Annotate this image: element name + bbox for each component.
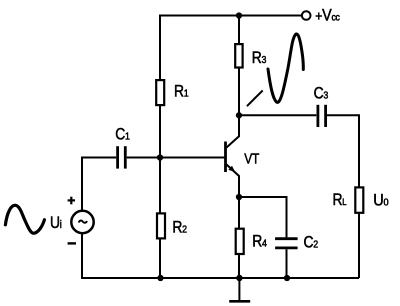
input sine wave [5, 205, 44, 233]
wire right column upper [358, 114, 360, 187]
wire left column middle [159, 105, 161, 214]
wire source bottom [81, 233, 83, 279]
node dot emitter [236, 194, 242, 200]
resistor RL [355, 187, 363, 212]
label plus [68, 197, 75, 205]
wire C3 to right column [327, 114, 359, 116]
wire bottom rail [82, 277, 359, 279]
svg-text:VT: VT [244, 150, 259, 167]
wire R4 to rail [238, 254, 240, 278]
capacitor C1 [118, 146, 126, 168]
svg-text:C2: C2 [304, 234, 318, 252]
svg-text:R1: R1 [174, 83, 188, 101]
resistor R4 [236, 229, 244, 254]
capacitor C2 [275, 239, 298, 248]
wire mid column collector [238, 67, 240, 115]
wire collector to C3 [239, 114, 316, 116]
label minus [68, 242, 76, 244]
resistor R3 [235, 44, 242, 67]
wire emitter to R4 [238, 197, 240, 229]
wire left column lower [159, 238, 161, 278]
svg-text:R2: R2 [172, 219, 186, 237]
node dot bottom C2 [284, 275, 290, 281]
terminal +Vcc circle [302, 11, 311, 20]
wire left column upper [159, 15, 161, 81]
node dot bottom left [157, 275, 163, 281]
svg-text:RL: RL [333, 191, 347, 209]
source Ui circle [71, 211, 93, 233]
output sine wave [268, 34, 303, 102]
svg-text:R4: R4 [252, 233, 267, 251]
resistor R2 [157, 213, 165, 238]
wire C2 stem bottom [286, 249, 288, 278]
wire C2 stem top [286, 196, 288, 237]
node dot top rail [236, 12, 242, 18]
wire mid column top [238, 16, 240, 45]
svg-text:R3: R3 [252, 49, 266, 67]
node dot base [157, 154, 163, 160]
svg-text:C1: C1 [115, 125, 129, 143]
svg-text:U0: U0 [373, 191, 389, 209]
wire emitter row [239, 196, 287, 198]
wire top rail [159, 15, 302, 17]
source tilde [79, 220, 87, 222]
wire right column lower [358, 213, 360, 278]
svg-text:C3: C3 [314, 84, 328, 102]
node dot bottom mid [236, 275, 243, 282]
node dot collector [236, 112, 242, 118]
resistor R1 [156, 80, 164, 105]
wire C1 to base [127, 157, 225, 159]
svg-text:Ui: Ui [50, 214, 62, 232]
wire base [82, 157, 116, 159]
svg-text:+Vcc: +Vcc [315, 7, 340, 25]
wire source top [81, 157, 83, 211]
ground [229, 278, 250, 301]
pointer diagonal line [247, 90, 263, 106]
capacitor C3 [318, 105, 326, 127]
transistor VT [226, 116, 240, 197]
